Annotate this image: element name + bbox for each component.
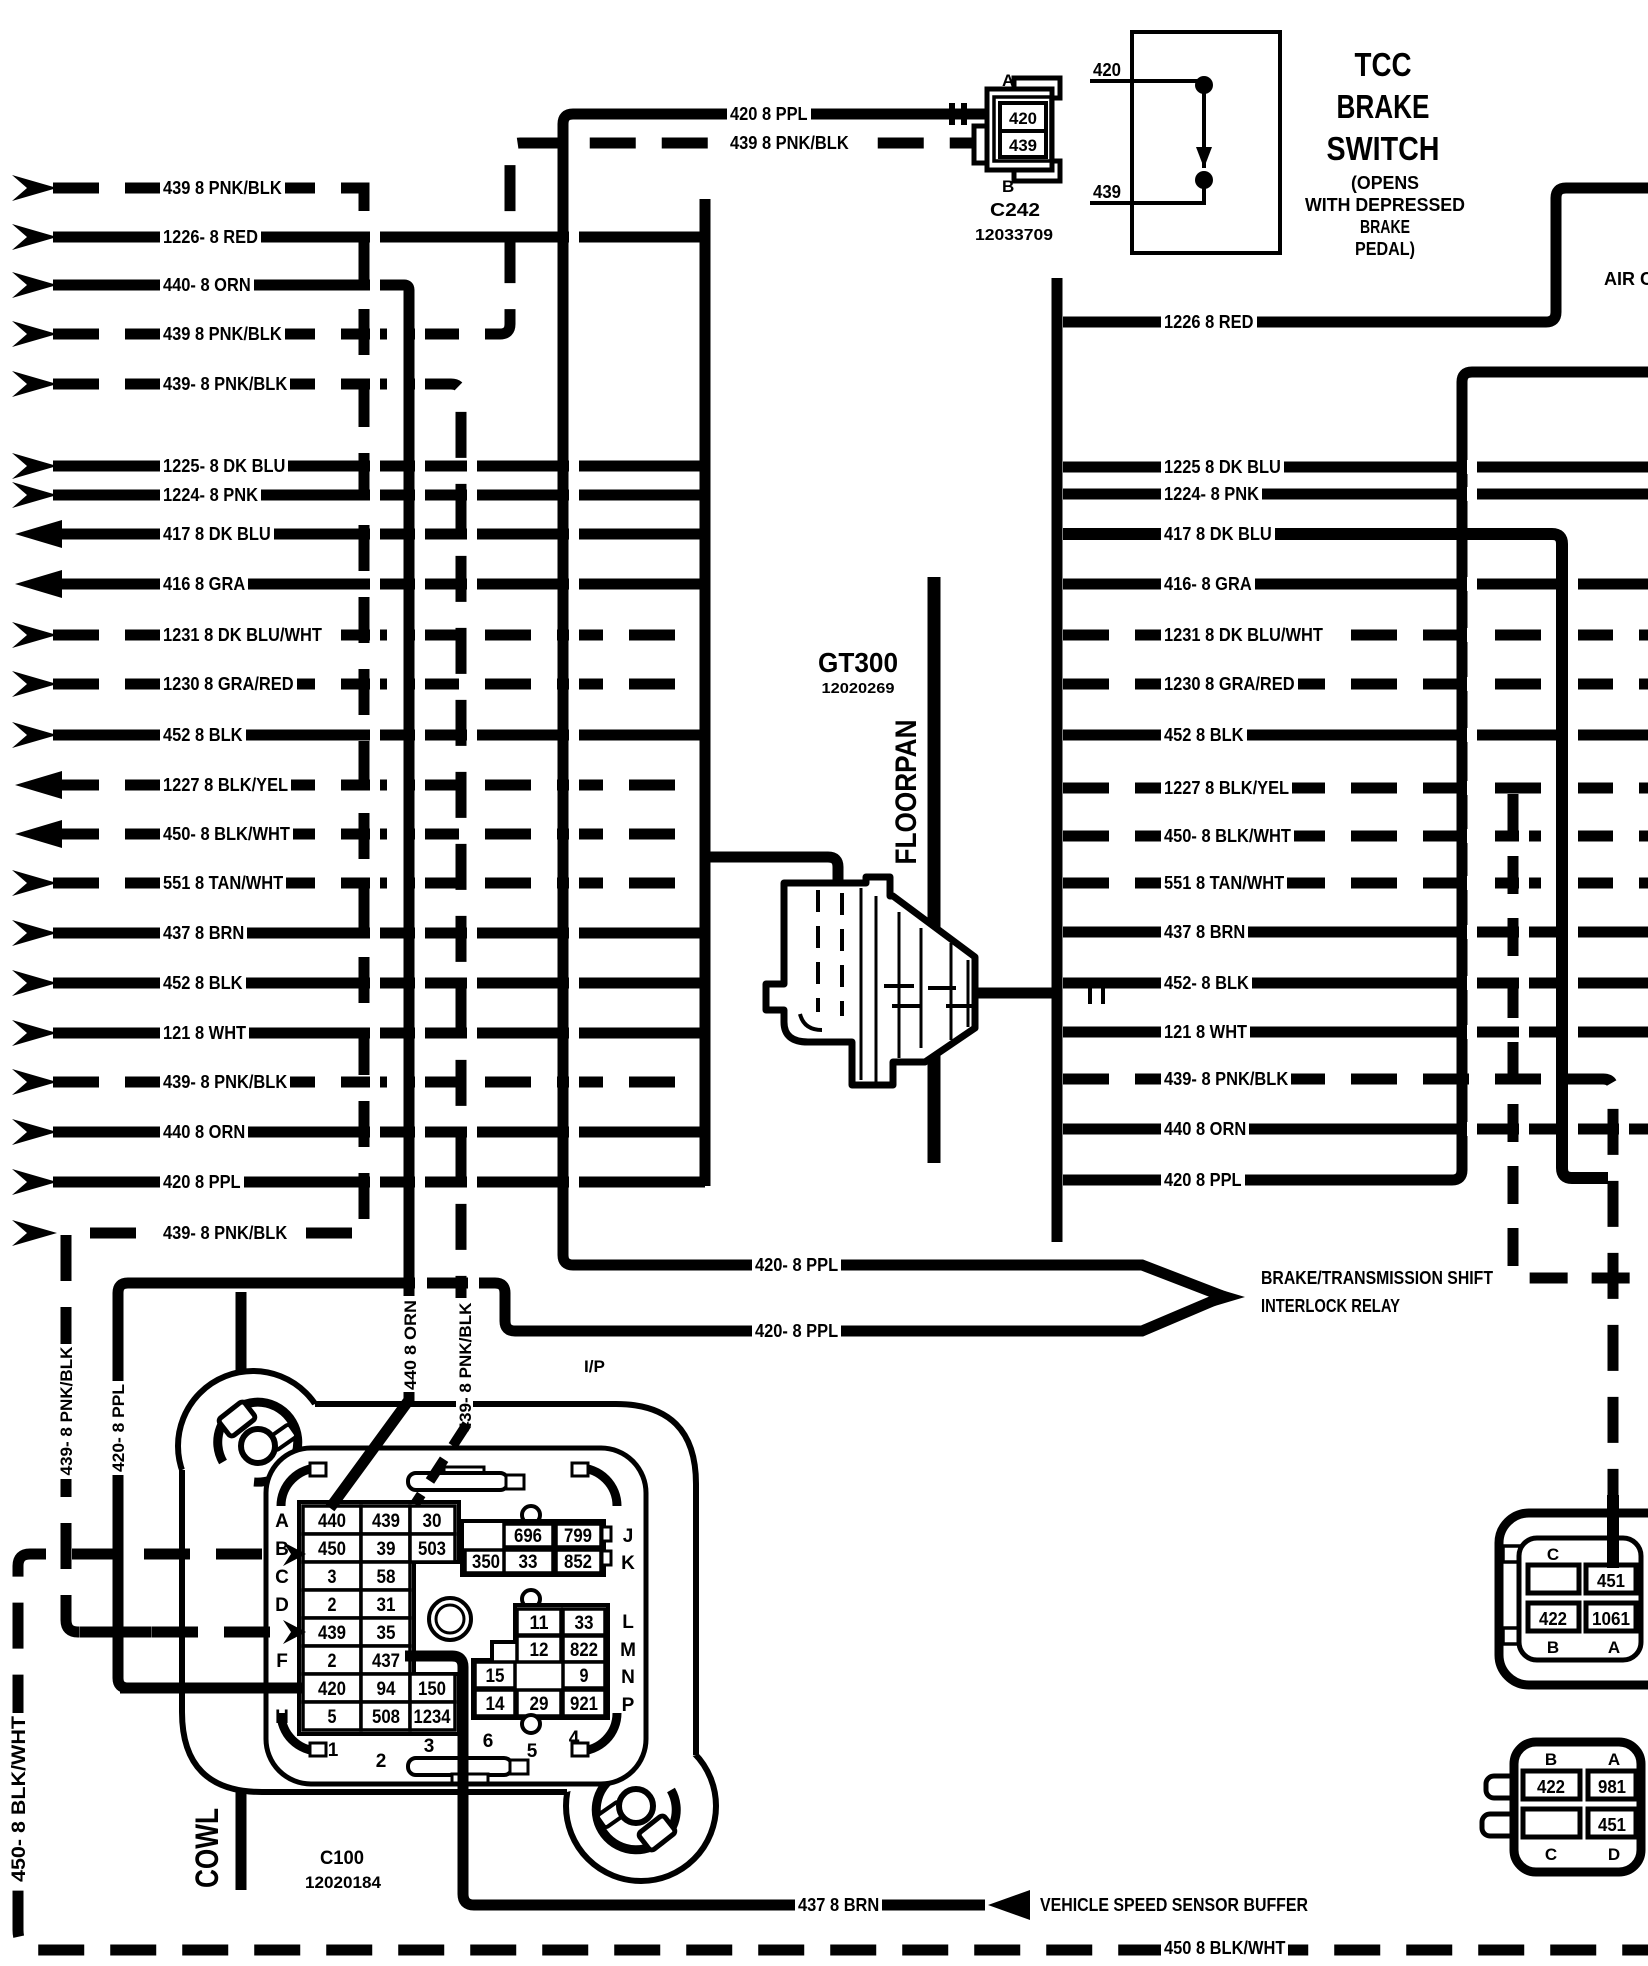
svg-text:150: 150 <box>418 1679 446 1700</box>
svg-text:450 8 BLK/WHT: 450 8 BLK/WHT <box>1164 1938 1285 1958</box>
arrow left row 21 <box>12 1169 57 1195</box>
svg-text:420 8 PPL: 420 8 PPL <box>163 1172 241 1192</box>
svg-text:1226 8 RED: 1226 8 RED <box>1164 312 1254 332</box>
C100 inner face <box>266 1448 646 1784</box>
wire 420 into TCC switch <box>1090 79 1204 83</box>
label 1231 8 DK BLU/WHT (left row 10) <box>160 626 325 644</box>
wire 121 8 WHT (left row 18) <box>53 1028 705 1039</box>
svg-text:451: 451 <box>1597 1571 1625 1591</box>
svg-text:FLOORPAN: FLOORPAN <box>890 720 923 865</box>
cowl line <box>236 1292 247 1890</box>
svg-text:WITH DEPRESSED: WITH DEPRESSED <box>1305 195 1465 215</box>
label 417 8 DK BLU (right) <box>1161 525 1275 543</box>
svg-text:452 8 BLK: 452 8 BLK <box>163 973 243 993</box>
label 440 8 ORN (vertical x409) <box>401 1297 418 1393</box>
harness bus (right, x1057) <box>1052 278 1063 1242</box>
svg-text:9: 9 <box>580 1666 589 1687</box>
svg-text:1234: 1234 <box>414 1707 451 1728</box>
harness bus (left, x705) <box>700 199 711 1186</box>
svg-text:2: 2 <box>328 1595 337 1616</box>
svg-text:1227 8 BLK/YEL: 1227 8 BLK/YEL <box>1164 778 1289 798</box>
label 452 8 BLK (right) <box>1161 726 1247 744</box>
wire 437 8 BRN (left row 16) <box>53 928 705 939</box>
label 452 8 BLK (left row 12) <box>160 726 246 744</box>
wire 439 PNK/BLK (left row 4 up x510 to C242 pin B) <box>53 143 985 334</box>
arrow left row 8 <box>15 520 62 548</box>
svg-text:P: P <box>622 1695 635 1716</box>
arrow left row 20 <box>12 1119 57 1145</box>
svg-text:94: 94 <box>377 1679 396 1700</box>
wire 420- PPL into C100 pin G (over shell) <box>120 1683 303 1694</box>
svg-text:450: 450 <box>318 1539 346 1560</box>
svg-text:A: A <box>275 1511 289 1532</box>
label 420 8 PPL (left row 21) <box>160 1173 244 1191</box>
svg-text:799: 799 <box>564 1526 592 1547</box>
svg-text:PEDAL): PEDAL) <box>1355 239 1415 259</box>
wire 439- 8 PNK/BLK (left row 19) <box>53 1077 705 1088</box>
label 437 8 BRN (right) <box>1161 923 1248 941</box>
label 1230 8 GRA/RED (right) <box>1161 675 1298 693</box>
wire 440- ORN (left row 3 down to C100) <box>53 285 409 1296</box>
wire to floorpan grommet (from x705 bus) <box>705 857 838 885</box>
svg-text:437: 437 <box>372 1651 400 1672</box>
wire 439 into TCC switch <box>1090 186 1204 203</box>
svg-text:420- 8 PPL: 420- 8 PPL <box>755 1255 838 1275</box>
label 450- 8 BLK/WHT (vertical x18) <box>9 1713 28 1885</box>
C100 key tab (bottom) <box>408 1758 512 1775</box>
svg-text:416- 8 GRA: 416- 8 GRA <box>1164 574 1252 594</box>
svg-text:420 8 PPL: 420 8 PPL <box>1164 1170 1242 1190</box>
arrow left row 22 <box>12 1220 57 1246</box>
arrowhead into C100 pin B <box>283 1542 306 1566</box>
wire 1226 RED (right, to edge) <box>1063 188 1648 322</box>
svg-text:L: L <box>622 1612 634 1633</box>
C100 face arc (bottom-right) <box>579 1713 617 1751</box>
svg-text:420: 420 <box>1093 60 1121 80</box>
svg-text:12: 12 <box>530 1640 549 1661</box>
wire 439- PNK/BLK diagonal into C100 pin A2 <box>415 1424 467 1504</box>
label 437 8 BRN (left row 16) <box>160 924 247 942</box>
svg-text:31: 31 <box>377 1595 396 1616</box>
arrow left row 12 <box>12 722 57 748</box>
arrow left row 5 <box>12 371 57 397</box>
wire 420 PPL (top, from C242 pin A down x563 to interlock relay) <box>563 114 1225 1297</box>
wire 416- 8 GRA (right) <box>1063 579 1648 590</box>
arrow left row 9 <box>15 570 62 598</box>
wire 450- BLK/WHT (C100 pin B to left edge, down to bottom) <box>18 1554 1648 1950</box>
svg-text:121 8 WHT: 121 8 WHT <box>163 1023 246 1043</box>
svg-text:I/P: I/P <box>584 1357 605 1376</box>
label 1231 8 DK BLU/WHT (right) <box>1161 626 1326 644</box>
wire from floorpan grommet (to x1057 bus) <box>974 988 1057 999</box>
svg-text:B: B <box>1545 1750 1557 1769</box>
label 439- 8 PNK/BLK (left row 19) <box>160 1073 290 1091</box>
arrow left row 10 <box>12 622 57 648</box>
label 1225- 8 DK BLU (left row 6) <box>160 457 288 475</box>
TCC brake switch box <box>1132 32 1280 253</box>
wire 440 8 ORN (right) <box>1063 1124 1648 1135</box>
wire 437 8 BRN (right) <box>1063 927 1648 938</box>
wire 1227 BLK/YEL branch (dashed vertical x1513) <box>1513 794 1648 1278</box>
wire 439 PNK/BLK loop (left row 1, vertical bus x364, row 22, vertical bus x66, to C100 pin E) <box>53 188 364 1632</box>
svg-text:COWL: COWL <box>189 1808 225 1888</box>
svg-text:437 8 BRN: 437 8 BRN <box>163 923 244 943</box>
svg-text:6: 6 <box>483 1731 494 1752</box>
svg-text:439 8 PNK/BLK: 439 8 PNK/BLK <box>163 178 282 198</box>
svg-text:29: 29 <box>530 1694 549 1715</box>
arrowhead from vehicle speed sensor buffer <box>988 1890 1030 1920</box>
label 1226 8 RED (right) <box>1161 313 1257 331</box>
svg-text:440 8 ORN: 440 8 ORN <box>1164 1119 1246 1139</box>
label 450 8 BLK/WHT (bottom) <box>1161 1939 1288 1957</box>
wire 439- PNK/BLK into C100 pin E (over shell) <box>80 1627 283 1638</box>
wire 1224- 8 PNK (right) <box>1063 489 1648 500</box>
svg-text:H: H <box>275 1707 289 1728</box>
label 420- 8 PPL (vertical x118) <box>109 1381 126 1475</box>
C100 mounting hole <box>429 1598 471 1640</box>
label 439- 8 PNK/BLK (left row 5) <box>160 375 290 393</box>
svg-text:J: J <box>623 1526 634 1547</box>
label 420 8 PPL (right) <box>1161 1171 1245 1189</box>
svg-text:12020184: 12020184 <box>305 1873 382 1892</box>
label 1224- 8 PNK (left row 7) <box>160 486 261 504</box>
svg-text:D: D <box>1608 1845 1620 1864</box>
connector C242 <box>1014 78 1060 98</box>
C100 pin grid L/M/N/P <box>522 1590 540 1608</box>
C100 left pin grid (rows A-H) <box>299 1502 459 1734</box>
svg-text:D: D <box>275 1595 289 1616</box>
wire air conditioning feed (right edge down to 420 PPL row) <box>1063 372 1648 1180</box>
svg-text:3: 3 <box>424 1736 435 1757</box>
svg-text:422: 422 <box>1539 1609 1567 1629</box>
svg-text:451: 451 <box>1598 1815 1626 1835</box>
pin wire 439- into 451 cell <box>1607 1502 1619 1568</box>
svg-text:C: C <box>1547 1545 1559 1564</box>
svg-text:K: K <box>621 1553 635 1574</box>
wire 440 ORN diagonal into C100 pin A <box>330 1392 409 1508</box>
arrow left row 19 <box>12 1069 57 1095</box>
label 121 8 WHT (right) <box>1161 1023 1250 1041</box>
svg-text:11: 11 <box>530 1613 549 1634</box>
wire 551 8 TAN/WHT (right) <box>1063 878 1648 889</box>
svg-text:(OPENS: (OPENS <box>1351 173 1419 193</box>
wire 437 BRN (C100 pin F down to vehicle speed sensor buffer) <box>405 1656 985 1905</box>
svg-text:B: B <box>275 1539 289 1560</box>
svg-text:2: 2 <box>328 1651 337 1672</box>
svg-text:437 8 BRN: 437 8 BRN <box>798 1895 879 1915</box>
svg-text:1226- 8 RED: 1226- 8 RED <box>163 227 258 247</box>
svg-text:A: A <box>1608 1638 1620 1657</box>
label 1225 8 DK BLU (right) <box>1161 458 1284 476</box>
svg-text:420: 420 <box>1009 109 1037 128</box>
svg-text:C242: C242 <box>990 200 1040 220</box>
wire 1226- 8 RED (left row 2) <box>53 232 705 243</box>
arrow left row 2 <box>12 224 57 250</box>
wire 420- PPL (lower interlock branch from x118 vertical) <box>118 1283 1222 1688</box>
label 416 8 GRA (left row 9) <box>160 575 248 593</box>
svg-text:420- 8 PPL: 420- 8 PPL <box>109 1384 128 1472</box>
svg-text:450- 8 BLK/WHT: 450- 8 BLK/WHT <box>163 824 290 844</box>
wire 1227 8 BLK/YEL (right) <box>1063 783 1648 794</box>
TCC switch blade arrowhead <box>1196 147 1212 168</box>
arrow left row 17 <box>12 970 57 996</box>
C100 mounting ear detail (top-left) <box>218 1402 298 1482</box>
svg-text:417 8 DK BLU: 417 8 DK BLU <box>1164 524 1272 544</box>
TCC switch blade <box>1202 85 1206 168</box>
svg-text:3: 3 <box>328 1567 337 1588</box>
svg-text:439- 8 PNK/BLK: 439- 8 PNK/BLK <box>163 1072 287 1092</box>
wire 417 DK BLU (right, down x1562) <box>1063 534 1608 1178</box>
svg-text:14: 14 <box>486 1694 505 1715</box>
svg-text:1225 8 DK BLU: 1225 8 DK BLU <box>1164 457 1281 477</box>
svg-text:452 8 BLK: 452 8 BLK <box>1164 725 1244 745</box>
svg-text:416 8 GRA: 416 8 GRA <box>163 574 245 594</box>
svg-text:1231 8 DK BLU/WHT: 1231 8 DK BLU/WHT <box>163 625 322 645</box>
svg-text:1227 8 BLK/YEL: 1227 8 BLK/YEL <box>163 775 288 795</box>
label 439- 8 PNK/BLK (right) <box>1161 1070 1291 1088</box>
svg-text:A: A <box>1002 71 1014 90</box>
svg-text:440 8 ORN: 440 8 ORN <box>163 1122 245 1142</box>
connector (422/981/451, pins B-A-C-D) <box>1486 1776 1520 1798</box>
svg-text:BRAKE: BRAKE <box>1360 217 1410 237</box>
wire 551 8 TAN/WHT (left row 15) <box>53 878 705 889</box>
label 450- 8 BLK/WHT (right) <box>1161 827 1294 845</box>
label 1226- 8 RED (left row 2) <box>160 228 261 246</box>
label 551 8 TAN/WHT (left row 15) <box>160 874 286 892</box>
svg-text:1231 8 DK BLU/WHT: 1231 8 DK BLU/WHT <box>1164 625 1323 645</box>
svg-text:551 8 TAN/WHT: 551 8 TAN/WHT <box>1164 873 1284 893</box>
svg-text:420- 8 PPL: 420- 8 PPL <box>755 1321 838 1341</box>
label 416- 8 GRA (right) <box>1161 575 1255 593</box>
wire 439- PNK/BLK (right, down x1613 into connector) <box>1063 1079 1613 1500</box>
svg-text:420: 420 <box>318 1679 346 1700</box>
svg-text:5: 5 <box>328 1707 337 1728</box>
svg-text:551 8 TAN/WHT: 551 8 TAN/WHT <box>163 873 283 893</box>
wire crossing hop gaps <box>370 230 380 244</box>
svg-text:4: 4 <box>569 1728 580 1749</box>
wire 452 8 BLK (left row 12) <box>53 730 705 741</box>
svg-text:1224- 8 PNK: 1224- 8 PNK <box>163 485 258 505</box>
arrowhead into C100 pin E <box>283 1620 306 1644</box>
label 439- 8 PNK/BLK (left row 22) <box>160 1224 290 1242</box>
arrow left row 14 <box>15 820 62 848</box>
svg-text:439: 439 <box>318 1623 346 1644</box>
arrowhead brake/transmission interlock relay <box>1198 1283 1245 1311</box>
svg-text:1230 8 GRA/RED: 1230 8 GRA/RED <box>1164 674 1295 694</box>
svg-text:439: 439 <box>1093 182 1121 202</box>
wire 1230 8 GRA/RED (right) <box>1063 679 1648 690</box>
label 440- 8 ORN (left row 3) <box>160 276 254 294</box>
svg-text:B: B <box>1547 1638 1559 1657</box>
svg-text:852: 852 <box>564 1552 592 1573</box>
svg-text:350: 350 <box>472 1552 500 1573</box>
wire 1227 8 BLK/YEL (left row 13) <box>53 780 705 791</box>
svg-text:12020269: 12020269 <box>822 680 895 697</box>
wire 121 8 WHT (right) <box>1063 1027 1648 1038</box>
wire 440 8 ORN (left row 20) <box>53 1127 705 1138</box>
arrow left row 7 <box>12 482 57 508</box>
TCC switch contact top <box>1195 76 1213 94</box>
label 417 8 DK BLU (left row 8) <box>160 525 274 543</box>
label 440 8 ORN (left row 20) <box>160 1123 248 1141</box>
svg-text:440- 8 ORN: 440- 8 ORN <box>163 275 251 295</box>
arrow left row 11 <box>12 671 57 697</box>
arrow left row 13 <box>15 771 62 799</box>
svg-text:981: 981 <box>1598 1777 1626 1797</box>
svg-text:C: C <box>275 1567 289 1588</box>
svg-text:503: 503 <box>418 1539 446 1560</box>
svg-text:1230 8 GRA/RED: 1230 8 GRA/RED <box>163 674 294 694</box>
svg-text:TCC: TCC <box>1355 46 1412 83</box>
svg-text:C100: C100 <box>320 1848 364 1869</box>
svg-text:1: 1 <box>328 1740 339 1761</box>
svg-text:GT300: GT300 <box>818 647 898 678</box>
svg-text:BRAKE/TRANSMISSION SHIFT: BRAKE/TRANSMISSION SHIFT <box>1261 1268 1493 1288</box>
svg-text:439: 439 <box>372 1511 400 1532</box>
svg-text:1061: 1061 <box>1592 1609 1630 1629</box>
svg-text:921: 921 <box>570 1694 598 1715</box>
connector C100 outer shell <box>178 1371 328 1521</box>
svg-text:440 8 ORN: 440 8 ORN <box>401 1300 420 1390</box>
wire 452- 8 BLK (right) <box>1063 978 1648 989</box>
label 121 8 WHT (left row 18) <box>160 1024 249 1042</box>
wire 1231 8 DK BLU/WHT (left row 10) <box>53 630 705 641</box>
label 439- 8 PNK/BLK (vertical x66) <box>57 1344 74 1479</box>
label 437 8 BRN (bottom) <box>795 1896 882 1914</box>
svg-text:SWITCH: SWITCH <box>1327 130 1440 167</box>
arrow left row 15 <box>12 870 57 896</box>
label 420 8 PPL (top) <box>727 105 811 123</box>
svg-text:VEHICLE SPEED SENSOR BUFFER: VEHICLE SPEED SENSOR BUFFER <box>1040 1895 1308 1915</box>
label 439 8 PNK/BLK (left row 1) <box>160 179 285 197</box>
wire 450- 8 BLK/WHT (left row 14) <box>53 829 705 840</box>
C100 face arc (top-right) <box>579 1468 617 1506</box>
svg-text:420 8 PPL: 420 8 PPL <box>730 104 808 124</box>
TCC switch contact bottom <box>1195 171 1213 189</box>
svg-text:439- 8 PNK/BLK: 439- 8 PNK/BLK <box>57 1346 76 1476</box>
svg-text:15: 15 <box>486 1666 505 1687</box>
svg-text:A: A <box>1608 1750 1620 1769</box>
label 1224- 8 PNK (right) <box>1161 485 1262 503</box>
label 450- 8 BLK/WHT (left row 14) <box>160 825 293 843</box>
wire 1231 8 DK BLU/WHT (right) <box>1063 630 1648 641</box>
floorpan line <box>928 577 941 1163</box>
svg-text:B: B <box>1002 177 1014 196</box>
arrow left row 3 <box>12 272 57 298</box>
svg-text:439- 8 PNK/BLK: 439- 8 PNK/BLK <box>163 374 287 394</box>
svg-text:439- 8 PNK/BLK: 439- 8 PNK/BLK <box>163 1223 287 1243</box>
svg-text:INTERLOCK RELAY: INTERLOCK RELAY <box>1261 1296 1400 1316</box>
wire 1225- 8 DK BLU (left row 6) <box>53 461 705 472</box>
svg-text:452- 8 BLK: 452- 8 BLK <box>1164 973 1249 993</box>
label 420- 8 PPL (lower) <box>752 1322 841 1340</box>
arrow left row 4 <box>12 321 57 347</box>
label 439- 8 PNK/BLK (vertical x461) <box>456 1300 473 1435</box>
svg-text:33: 33 <box>575 1613 594 1634</box>
svg-text:437 8 BRN: 437 8 BRN <box>1164 922 1245 942</box>
svg-text:439: 439 <box>1009 136 1037 155</box>
label 452- 8 BLK (right) <box>1161 974 1252 992</box>
svg-text:35: 35 <box>377 1623 396 1644</box>
svg-text:1224- 8 PNK: 1224- 8 PNK <box>1164 484 1259 504</box>
svg-text:M: M <box>620 1640 636 1661</box>
svg-text:C: C <box>1545 1845 1557 1864</box>
wire 1230 8 GRA/RED (left row 11) <box>53 679 705 690</box>
label 420- 8 PPL (upper) <box>752 1256 841 1274</box>
C100 face arc (bottom-left) <box>281 1713 319 1751</box>
svg-text:439 8 PNK/BLK: 439 8 PNK/BLK <box>163 324 282 344</box>
wire 439- PNK/BLK (left row 5 down x461 to C100) <box>53 384 461 1298</box>
arrow left row 18 <box>12 1020 57 1046</box>
wire 416 8 GRA (left row 9) <box>53 579 705 590</box>
svg-text:439- 8 PNK/BLK: 439- 8 PNK/BLK <box>456 1302 475 1432</box>
label 551 8 TAN/WHT (right) <box>1161 874 1287 892</box>
floorpan grommet (GT300 harness pass-through) <box>766 877 975 1085</box>
connector (451/422/1061, pins C-B-A) <box>1499 1513 1648 1685</box>
svg-text:N: N <box>621 1667 635 1688</box>
label 1227 8 BLK/YEL (right) <box>1161 779 1292 797</box>
wire 1225 8 DK BLU (right) <box>1063 462 1648 473</box>
svg-text:30: 30 <box>423 1511 442 1532</box>
svg-text:696: 696 <box>514 1526 542 1547</box>
svg-text:439 8 PNK/BLK: 439 8 PNK/BLK <box>730 133 849 153</box>
label 1227 8 BLK/YEL (left row 13) <box>160 776 291 794</box>
svg-text:450- 8 BLK/WHT: 450- 8 BLK/WHT <box>1164 826 1291 846</box>
wire 1224- 8 PNK (left row 7) <box>53 490 705 501</box>
wire 420 8 PPL (left row 21) <box>53 1177 705 1188</box>
svg-text:417 8 DK BLU: 417 8 DK BLU <box>163 524 271 544</box>
svg-text:422: 422 <box>1537 1777 1565 1797</box>
C100 mounting ear detail (bottom-right) <box>596 1770 676 1850</box>
label 439 8 PNK/BLK (top) <box>727 134 852 152</box>
wire 450- 8 BLK/WHT (right) <box>1063 831 1648 842</box>
wire 417 8 DK BLU (left row 8) <box>53 529 705 540</box>
label 452 8 BLK (left row 17) <box>160 974 246 992</box>
svg-text:440: 440 <box>318 1511 346 1532</box>
label 439 8 PNK/BLK (left row 4) <box>160 325 285 343</box>
svg-text:F: F <box>276 1651 288 1672</box>
svg-text:BRAKE: BRAKE <box>1337 88 1430 125</box>
wire 452 8 BLK (right) <box>1063 730 1648 741</box>
svg-text:452 8 BLK: 452 8 BLK <box>163 725 243 745</box>
arrow left row 6 <box>12 453 57 479</box>
svg-text:39: 39 <box>377 1539 396 1560</box>
C100 face arc (top-left) <box>281 1468 319 1506</box>
arrow left row 1 <box>12 175 57 201</box>
wire 452 8 BLK (left row 17) <box>53 978 705 989</box>
svg-text:822: 822 <box>570 1640 598 1661</box>
svg-text:1225- 8 DK BLU: 1225- 8 DK BLU <box>163 456 285 476</box>
svg-text:2: 2 <box>376 1751 387 1772</box>
svg-text:33: 33 <box>519 1552 538 1573</box>
svg-text:121 8 WHT: 121 8 WHT <box>1164 1022 1247 1042</box>
svg-text:450- 8 BLK/WHT: 450- 8 BLK/WHT <box>9 1716 30 1882</box>
C100 pin grid J/K <box>522 1506 540 1524</box>
arrow left row 16 <box>12 920 57 946</box>
svg-text:12033709: 12033709 <box>975 227 1053 244</box>
svg-text:439- 8 PNK/BLK: 439- 8 PNK/BLK <box>1164 1069 1288 1089</box>
label 1230 8 GRA/RED (left row 11) <box>160 675 297 693</box>
svg-text:508: 508 <box>372 1707 400 1728</box>
svg-text:5: 5 <box>527 1741 538 1762</box>
label 440 8 ORN (right) <box>1161 1120 1249 1138</box>
C100 key tab (top) <box>444 1467 484 1476</box>
svg-text:AIR CO: AIR CO <box>1604 269 1648 289</box>
svg-text:58: 58 <box>377 1567 396 1588</box>
